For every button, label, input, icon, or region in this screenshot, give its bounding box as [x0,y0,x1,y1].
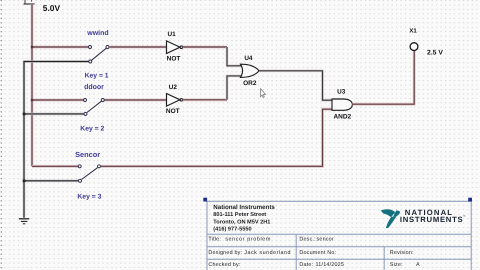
selection handle top-right [468,198,472,202]
wire J2 to U2 [105,99,167,102]
mouse cursor [261,89,266,98]
svg-text:Document No:: Document No: [299,250,336,256]
svg-text:wwind: wwind [86,29,108,37]
svg-text:INSTRUMENTS: INSTRUMENTS [400,215,463,224]
wire VCC rail vertical [31,4,34,166]
wire branch switch J2 bottom [24,113,84,116]
svg-text:Key = 2: Key = 2 [80,125,104,132]
svg-text:X1: X1 [409,28,417,35]
svg-text:Key = 3: Key = 3 [77,193,101,200]
wire branch switch J3 bottom [24,180,78,183]
svg-text:National Instruments: National Instruments [213,204,275,211]
wire U1 out [183,46,227,49]
svg-text:U2: U2 [169,84,178,91]
node junction VCC/ddoor [31,99,34,102]
svg-text:A: A [416,262,420,268]
gate AND2 U3 [332,99,352,110]
logo NATIONAL INSTRUMENTS [400,208,466,224]
svg-text:Revision:: Revision: [390,250,414,256]
switch J1 wwind [89,46,110,64]
wire AND out to probe [352,51,414,105]
svg-text:Sencor: Sencor [75,150,100,159]
titleblock row texts [208,237,420,268]
node junction VCC/wwind [31,46,34,49]
wire U2 out [183,98,227,101]
svg-text:Checked by:: Checked by: [208,262,240,268]
titleblock address text [213,204,275,233]
switch J3 Sencor [78,165,100,183]
svg-text:U1: U1 [168,31,177,38]
op NOT gate U2 [167,94,183,107]
node junction gnd/J2 [23,113,26,116]
svg-text:Size:: Size: [390,262,403,268]
svg-text:Jack sunderland: Jack sunderland [244,250,291,256]
switch J2 ddoor [84,99,105,116]
svg-text:U4: U4 [244,55,253,62]
svg-text:™: ™ [463,215,466,219]
wire branch to switch J2 top [32,99,83,102]
svg-text:Date:: Date: [299,262,313,268]
probe X1 [410,43,418,51]
svg-text:Designed by:: Designed by: [208,250,242,256]
svg-text:Key = 1: Key = 1 [85,73,109,80]
gate OR2 U4 [241,64,260,77]
selection handle top-left [203,198,207,202]
wire ground rail vertical [24,62,89,218]
wire branch to switch J1 top [32,46,88,49]
svg-text:(416) 977-5550: (416) 977-5550 [213,226,251,233]
svg-text:801-111 Peter Street: 801-111 Peter Street [213,212,266,218]
svg-text:AND2: AND2 [333,114,351,121]
op NOT gate U1 [167,41,183,54]
ground symbol [19,219,29,224]
svg-text:ddoor: ddoor [84,83,104,91]
svg-text:OR2: OR2 [243,80,257,87]
sheet left border [0,0,2,270]
svg-text:Desc.:: Desc.: [299,237,315,243]
titleblock outline [207,201,471,270]
svg-text:11/14/2025: 11/14/2025 [316,262,345,268]
svg-text:NOT: NOT [167,55,181,62]
wire J3 to U3 input B [101,109,333,166]
logo NI eagle [381,209,401,228]
wire U1 down to OR in1 [227,47,242,66]
svg-text:2.5 V: 2.5 V [427,49,443,56]
svg-text:sencor problem: sencor problem [225,237,271,243]
svg-text:Toronto, ON M5V 2H1: Toronto, ON M5V 2H1 [213,219,270,225]
svg-text:U3: U3 [337,89,346,96]
svg-text:5.0V: 5.0V [43,3,61,13]
svg-text:sencor: sencor [317,237,334,243]
wire U2 up to OR in2 [227,76,242,100]
wire J1 to U1 [109,46,166,49]
wire OR out to AND in A [259,71,332,100]
svg-text:Title:: Title: [208,237,221,243]
power VCC 5.0V symbol [24,0,35,4]
svg-text:NOT: NOT [166,108,180,115]
node junction gnd/J3 [23,180,26,183]
wire elbow to switch J3 top [32,165,78,168]
